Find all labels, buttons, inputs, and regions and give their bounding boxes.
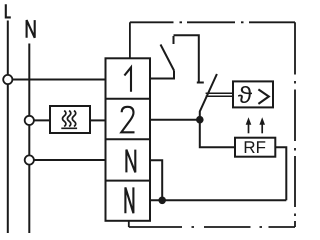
wire N bus bottom: [150, 199, 286, 201]
terminal label N4: [125, 187, 133, 213]
wire N vertical lower: [28, 165, 30, 233]
wire RF to N bus: [275, 147, 286, 200]
wire terminal 2 to junction: [150, 119, 200, 121]
wire N vertical middle: [28, 125, 30, 155]
junction dot B: [158, 197, 166, 205]
wire L vertical upper: [7, 21, 9, 76]
switch S1 fixed contact: [173, 36, 175, 44]
switch S2 blade: [200, 74, 217, 116]
thermostat greater-than symbol: [258, 89, 268, 104]
signal arrow left: [246, 117, 252, 133]
enclosure border bottom stub: [128, 221, 130, 227]
switch S1 blade: [161, 45, 175, 71]
terminal block X1: [106, 58, 151, 221]
terminal circle on N upper: [25, 116, 34, 125]
enclosure border bottom: [129, 226, 295, 228]
heater load E1: [50, 106, 90, 133]
signal arrow right: [259, 117, 265, 133]
net label N: [27, 20, 35, 38]
wire terminal 1 to switch pivot: [150, 71, 174, 79]
junction dot A: [196, 116, 204, 124]
terminal circle on L: [3, 75, 12, 84]
wire N to terminal N3: [34, 159, 106, 161]
wire terminal N3 to bus: [150, 160, 162, 200]
terminal label N3: [126, 150, 135, 173]
wire N vertical upper: [28, 44, 30, 116]
wire L vertical lower: [7, 84, 9, 233]
wire N to heater: [34, 119, 50, 121]
thermostat theta symbol: [238, 86, 252, 103]
enclosure border top: [130, 21, 295, 23]
RF receiver U2: [235, 138, 275, 157]
thermostat actuator link: [206, 93, 233, 96]
thermostat U1 box: [233, 81, 273, 107]
wire heater to terminal 2: [90, 119, 106, 121]
enclosure border right: [294, 22, 296, 227]
wire switch top to right contact: [174, 35, 199, 82]
wire junction to RF box: [200, 120, 235, 148]
wire L to terminal 1: [12, 79, 105, 81]
terminal label 2: [121, 107, 134, 133]
terminal label 1: [124, 67, 131, 92]
net label L: [6, 4, 11, 17]
terminal circle on N lower: [25, 155, 34, 164]
enclosure border left: [129, 22, 131, 58]
switch S2 fixed contact tick: [197, 82, 204, 84]
